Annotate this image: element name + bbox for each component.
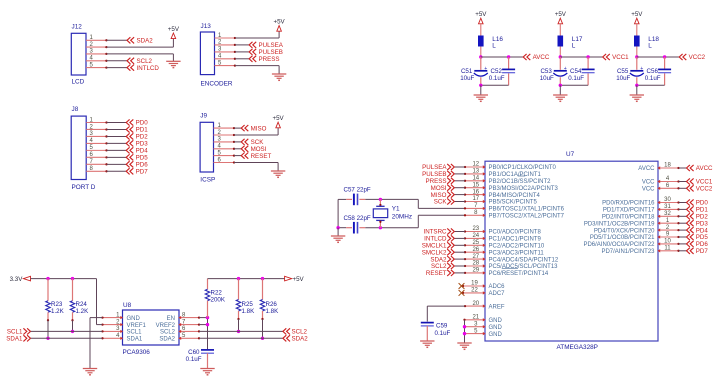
junction R25 top (237, 277, 240, 280)
wire U7-PD4 (679, 229, 687, 231)
capacitor C55 leads (636, 57, 638, 85)
svg-text:GND: GND (489, 325, 503, 331)
J9 pin 5 stub (214, 150, 236, 156)
svg-text:PD3/INT1/OC2B/PCINT19: PD3/INT1/OC2B/PCINT19 (584, 221, 655, 227)
ground (U7) (457, 343, 471, 349)
U7 pin 15 (PB3) (464, 182, 559, 192)
resistor R22 (205, 279, 209, 318)
J9 pin 3 stub (214, 137, 236, 143)
label Y1 (392, 206, 412, 221)
svg-text:PC4/ADC4/SDA/PCINT12: PC4/ADC4/SDA/PCINT12 (489, 257, 559, 263)
svg-text:1.8K: 1.8K (266, 308, 280, 315)
net flag PD3 (U7 right) (687, 220, 709, 227)
svg-text:10uF: 10uF (540, 75, 554, 82)
U8 pin 1 (GND) (101, 312, 140, 322)
wire J13.3-PULSEB (235, 51, 249, 53)
wire U7-VCC1 (679, 181, 687, 183)
svg-text:C57 22pF: C57 22pF (344, 187, 371, 194)
svg-text:13: 13 (472, 169, 479, 175)
capacitor C52 (502, 69, 515, 72)
wire EN (199, 317, 208, 319)
net flag SCL2 (U7 left) (431, 263, 454, 270)
inductor L18 (634, 36, 659, 50)
wire xtal left vert (337, 199, 339, 227)
net flag MOSI (U7) (431, 185, 455, 192)
svg-text:0.1uF: 0.1uF (186, 356, 202, 363)
wire J9.6-GND (234, 163, 278, 172)
net flag SDA2 (U7 left) (430, 256, 454, 263)
net flag SMCLK2 (U7 left) (422, 249, 455, 256)
wire U8 GND (90, 318, 103, 369)
J13 pin 3 stub (215, 47, 237, 53)
U7 pin 16 (PB4) (464, 189, 541, 199)
wire U7-PD2 (679, 215, 687, 217)
wire node-AVCC (481, 56, 523, 58)
U7 pin 20 (AREF) (464, 301, 505, 311)
svg-text:20MHz: 20MHz (392, 214, 412, 221)
junction R25-SCL2 (237, 330, 240, 333)
label ICSP (200, 177, 215, 184)
junction node VCC1 a (559, 55, 562, 58)
svg-text:PD0: PD0 (136, 120, 149, 127)
svg-text:PB5/SCK/PCINT5: PB5/SCK/PCINT5 (489, 200, 538, 206)
label R25 (242, 301, 256, 315)
U7 pin 31 (PD1 right) (603, 204, 680, 214)
svg-text:PD4/T0/XCK/PCINT20: PD4/T0/XCK/PCINT20 (594, 228, 655, 234)
inductor L16 (478, 36, 503, 50)
wire AREF-C59 (427, 306, 465, 321)
wire SDA1 (31, 337, 103, 339)
svg-text:PD5: PD5 (136, 155, 149, 162)
U7 pin 32 (PD2 right) (602, 211, 680, 221)
ground (J13) (272, 74, 286, 80)
wire J9.5-RESET (234, 155, 241, 157)
junction R24 top (71, 277, 74, 280)
svg-text:PD7: PD7 (696, 248, 709, 255)
no-connect X (ADC6) (459, 283, 465, 289)
net flag SCL2 (J12) (127, 58, 153, 65)
label R26 (266, 301, 280, 315)
net flag PD5 (J8) (126, 154, 148, 161)
label ENCODER (201, 81, 233, 88)
net flag SMCLK1 (U7 left) (422, 242, 455, 249)
svg-text:10uF: 10uF (616, 75, 630, 82)
svg-text:+5V: +5V (555, 11, 567, 18)
svg-text:MISO: MISO (251, 125, 267, 132)
ground (L17) (553, 95, 567, 101)
wire J8.8-PD7 (107, 170, 127, 172)
label LCD (72, 79, 85, 86)
wire L18-node (636, 47, 638, 58)
svg-text:VREF2: VREF2 (156, 323, 176, 329)
label J9 (200, 113, 207, 120)
net flag PD4 (U7 right) (687, 227, 709, 234)
wire U7-PD7 (679, 250, 687, 252)
J12 pin 4 stub (86, 56, 108, 62)
net flag PD3 (J8) (126, 140, 148, 147)
svg-text:PB4/MISO/PCINT4: PB4/MISO/PCINT4 (489, 193, 541, 199)
junction C53 bottom (559, 84, 562, 87)
junction gnd pin3 (463, 325, 466, 328)
net flag MOSI (J9) (241, 146, 266, 153)
U7 pin 24 (PC1) (464, 233, 542, 243)
J8 pin 7 stub (86, 159, 107, 165)
label R22 (211, 289, 226, 303)
svg-text:+5V: +5V (475, 11, 487, 18)
label C52 (489, 68, 505, 82)
junction xtal bottom (379, 226, 382, 229)
wire R24-SCL1 (72, 320, 74, 331)
svg-text:+5V: +5V (293, 276, 305, 283)
label J8 (72, 106, 79, 113)
+5V symbol (L17) (555, 11, 567, 24)
net flag PD7 (U7 right) (687, 248, 709, 255)
capacitor C56 leads (664, 57, 666, 85)
connector J12 (71, 33, 86, 75)
net flag VCC1 (603, 54, 629, 61)
net flag RESET (J9) (241, 153, 271, 160)
wire U7-PD3 (679, 222, 687, 224)
svg-text:R23: R23 (51, 301, 63, 308)
svg-text:AVCC: AVCC (696, 165, 713, 172)
capacitor C54 leads (587, 57, 589, 85)
U7 pin 25 (PC2) (464, 240, 545, 250)
U7 pin 14 (PB2) (464, 176, 551, 186)
svg-text:J9: J9 (200, 113, 207, 120)
wire RESET-U7 PC (455, 272, 465, 274)
J13 pin 1 stub (215, 33, 237, 39)
wire J13.5-GND (235, 66, 279, 74)
J9 pin 2 stub (214, 130, 236, 136)
svg-text:ADC7: ADC7 (489, 291, 506, 297)
wire C54-gnd rail (560, 84, 588, 86)
U7 pin 19 (ADC6) (462, 281, 505, 291)
label U7 (566, 151, 575, 158)
resistor R26 (260, 279, 264, 321)
wire R23-SDA1 (47, 320, 49, 338)
svg-text:1.8K: 1.8K (242, 308, 256, 315)
label J13 (201, 23, 212, 30)
U7 pin 28 (PC5) (464, 261, 558, 271)
svg-text:VCC2: VCC2 (689, 54, 706, 61)
net flag +5V (U8) (285, 276, 305, 283)
wire node-VCC1 (560, 56, 602, 58)
J8 pin 6 stub (86, 152, 107, 158)
svg-text:SDA1: SDA1 (6, 336, 23, 343)
wire J9.3-SCK (234, 141, 241, 143)
wire MOSI-U7 (455, 187, 465, 189)
svg-text:30: 30 (664, 197, 671, 203)
ground (C60) (200, 369, 214, 375)
wire SCK-U7 (455, 201, 465, 203)
svg-text:25: 25 (472, 240, 479, 246)
net flag PD6 (J8) (126, 161, 148, 168)
wire C56-gnd rail (637, 84, 665, 86)
label C55 (616, 68, 630, 82)
net flag VCC2 (679, 54, 705, 61)
wire +5V rail (U8) (208, 278, 285, 280)
wire MISO-U7 (455, 194, 465, 196)
U7 pin 8 (PB7) (464, 210, 565, 220)
svg-text:18: 18 (664, 163, 671, 169)
J12 pin 3 stub (86, 49, 108, 55)
net flag SCL1 (7, 328, 31, 335)
net flag PD7 (J8) (126, 168, 148, 175)
svg-text:PB0/ICP1/CLKO/PCINT0: PB0/ICP1/CLKO/PCINT0 (489, 165, 557, 171)
capacitor C54 (582, 69, 595, 72)
net flag SDA2 (U8) (283, 335, 308, 342)
wire EN/VREF2 bus (207, 318, 209, 350)
capacitor C51 (474, 66, 488, 76)
wire J12.2-+5V (106, 39, 173, 47)
U7 pin 18 (AVCC right) (638, 163, 679, 173)
net flag PULSEA (U7) (422, 164, 454, 171)
net flag SCK (J9) (241, 139, 264, 146)
svg-text:Y1: Y1 (392, 206, 400, 213)
wire R26-SDA2 (262, 319, 264, 338)
junction R26 top (261, 277, 264, 280)
U7 pin 10 (PD6 right) (583, 239, 679, 249)
svg-text:+5V: +5V (168, 26, 180, 33)
svg-text:15: 15 (472, 182, 479, 188)
wire R25-SCL2 (238, 319, 240, 331)
no-connect X (ADC7) (459, 290, 465, 296)
net flag SDA1 (6, 335, 30, 342)
U8 pin 2 (VREF1) (101, 319, 146, 329)
wire L17-node (559, 47, 561, 58)
svg-text:28: 28 (472, 261, 479, 267)
J12 pin 2 stub (86, 42, 108, 48)
wire xtal gnd drop (337, 228, 339, 236)
svg-text:U7: U7 (566, 151, 575, 158)
junction gnd pin5 (463, 332, 466, 335)
svg-text:VCC: VCC (642, 187, 655, 193)
svg-text:PB6/TOSC1/XTAL1/PCINT6: PB6/TOSC1/XTAL1/PCINT6 (489, 207, 565, 213)
net flag RESET (U7 left) (426, 270, 454, 277)
wire J8.2-PD1 (107, 128, 127, 130)
svg-text:PB7/TOSC2/XTAL2/PCINT7: PB7/TOSC2/XTAL2/PCINT7 (489, 214, 565, 220)
wire U7-PD1 (679, 208, 687, 210)
svg-text:12: 12 (472, 162, 479, 168)
svg-text:10uF: 10uF (460, 75, 474, 82)
J12 pin 5 stub (86, 62, 108, 68)
wire SCL2 out (199, 330, 283, 332)
wire xtal bottom rail (338, 227, 418, 229)
J8 pin 4 stub (86, 138, 107, 144)
wire node-gnd (L16) (480, 85, 482, 95)
capacitor C60 (201, 350, 214, 369)
crystal Y1 (373, 199, 387, 227)
net flag PULSEA (249, 42, 284, 49)
label R24 (76, 301, 90, 315)
svg-text:23: 23 (472, 226, 479, 232)
wire SCL1 (31, 330, 103, 332)
ground (C59) (420, 341, 434, 347)
label C59 (435, 323, 451, 338)
IC U8 body (123, 310, 180, 345)
capacitor C52 leads (508, 57, 510, 85)
wire J8.1-PD0 (107, 122, 127, 124)
svg-text:32: 32 (664, 211, 671, 217)
junction EN (206, 316, 209, 319)
J8 pin 2 stub (86, 124, 107, 130)
wire SCL2-U7 PC (455, 265, 465, 267)
U7 pin 7 (PB6) (464, 203, 565, 213)
junction xtal-left-bottom (336, 226, 339, 229)
svg-text:22: 22 (471, 288, 478, 294)
capacitor C56 (658, 69, 671, 72)
svg-text:INTLCD: INTLCD (137, 65, 160, 72)
net flag PULSEB (U7) (422, 171, 454, 178)
svg-text:J13: J13 (201, 23, 212, 30)
svg-text:PD6: PD6 (136, 162, 149, 169)
junction VREF2 (206, 323, 209, 326)
junction C51 bottom (479, 84, 482, 87)
svg-text:PD7/AIN1/PCINT23: PD7/AIN1/PCINT23 (601, 249, 655, 255)
U7 pin 1 (PD3 right) (584, 218, 680, 228)
net flag PD2 (J8) (126, 133, 148, 140)
label PORT D (72, 184, 96, 191)
net flag AVCC (U7 right) (687, 165, 714, 172)
wire node-gnd (L17) (559, 85, 561, 95)
U7 pin 23 (PC0) (464, 226, 542, 236)
svg-text:PD3: PD3 (136, 141, 149, 148)
wire SMCLK1-U7 PC (455, 244, 465, 246)
wire J9.2-+5V (234, 128, 278, 135)
svg-text:LCD: LCD (72, 79, 85, 86)
wire J12.1-SDA2 (106, 39, 127, 41)
wire PULSEA-U7 (455, 166, 465, 168)
svg-text:PORT D: PORT D (72, 184, 96, 191)
svg-text:0.1uF: 0.1uF (645, 75, 661, 82)
svg-text:L: L (648, 43, 652, 50)
net flag PD4 (J8) (126, 147, 148, 154)
svg-text:PD5/T1/OC0B/PCINT21: PD5/T1/OC0B/PCINT21 (590, 235, 655, 241)
net flag PD0 (U7 right) (687, 199, 709, 206)
wire PRESS-U7 (455, 180, 465, 182)
J9 pin 1 stub (214, 123, 236, 129)
U8 pin 3 (SCL1) (101, 326, 142, 336)
net flag SCK (U7) (434, 198, 455, 205)
wire xtal-XTAL1 (418, 199, 465, 208)
label C53 (540, 68, 554, 82)
wire J12.3-GND (106, 54, 173, 61)
wire INTSRC-U7 PC (455, 231, 465, 233)
U7 pin 27 (PC4) (464, 254, 559, 264)
svg-text:R26: R26 (266, 301, 278, 308)
ground (L16) (474, 95, 488, 101)
+5V symbol (L18) (631, 11, 643, 24)
svg-text:SDA2: SDA2 (292, 336, 309, 343)
label C51 (460, 68, 474, 82)
svg-text:PB1/OC1A/PCINT1: PB1/OC1A/PCINT1 (489, 172, 542, 178)
IC U7 body (485, 161, 658, 341)
resistor R25 (236, 279, 240, 321)
svg-text:SDA2: SDA2 (137, 38, 154, 45)
svg-text:+: + (564, 66, 567, 72)
wire J8.5-PD4 (107, 149, 127, 151)
+5V symbol (L16) (475, 11, 487, 24)
U7 pin 4 (VCC right) (642, 176, 680, 186)
svg-text:PC1/ADC1/PCINT9: PC1/ADC1/PCINT9 (489, 237, 542, 243)
J8 pin 8 stub (86, 166, 107, 172)
wire INTLCD-U7 PC (455, 237, 465, 239)
wire xtal-XTAL2 (418, 215, 465, 227)
net flag PD5 (U7 right) (687, 234, 709, 241)
svg-text:AVCC: AVCC (533, 54, 550, 61)
inductor L17 (558, 36, 583, 50)
svg-text:SDA2: SDA2 (159, 337, 175, 343)
U7 pin 22 (ADC7) (462, 288, 505, 298)
U7 pin 26 (PC3) (464, 247, 545, 257)
net flag 3.3V (10, 276, 31, 283)
wire +5V-L17 (559, 24, 561, 36)
svg-text:+: + (640, 66, 643, 72)
svg-text:VREF1: VREF1 (127, 323, 147, 329)
svg-text:3.3V: 3.3V (10, 276, 24, 283)
wire J12.4-SCL2 (106, 60, 127, 62)
wire SDA2 out (199, 337, 283, 339)
ground (J9) (271, 171, 285, 177)
wire SMCLK2-U7 PC (455, 251, 465, 253)
U7 pin 5 (GND) (463, 328, 502, 338)
svg-text:VCC: VCC (642, 180, 655, 186)
svg-text:1.2K: 1.2K (51, 308, 65, 315)
svg-text:PD2: PD2 (136, 134, 149, 141)
capacitor C55 (630, 66, 644, 76)
wire J8.3-PD2 (107, 135, 127, 137)
net flag PD1 (U7 right) (687, 206, 709, 213)
net flag PULSEB (249, 49, 283, 56)
wire J13.1-+5V (235, 31, 279, 38)
svg-text:GND: GND (127, 316, 141, 322)
svg-text:14: 14 (472, 176, 479, 182)
junction node AVCC b (507, 55, 510, 58)
svg-text:ADC6: ADC6 (489, 284, 506, 290)
wire J9.1-MISO (234, 127, 241, 129)
svg-text:PRESS: PRESS (259, 56, 280, 63)
U7 pin 13 (PB1) (464, 169, 542, 179)
U7 pin 6 (VCC right) (642, 183, 680, 193)
capacitor C59 (421, 323, 434, 341)
wire J13.4-PRESS (235, 58, 249, 60)
label J12 (72, 24, 83, 31)
svg-text:ICSP: ICSP (200, 177, 215, 184)
U7 pin 17 (PB5) (464, 196, 538, 206)
svg-text:C59: C59 (436, 323, 448, 330)
svg-text:R24: R24 (76, 301, 88, 308)
wire J8.7-PD6 (107, 163, 127, 165)
U7 pin 2 (PD4 right) (594, 225, 680, 235)
svg-text:1.2K: 1.2K (76, 308, 90, 315)
overline RESET (502, 268, 518, 270)
svg-text:+: + (484, 66, 487, 72)
svg-text:27: 27 (472, 254, 479, 260)
svg-text:+5V: +5V (273, 115, 285, 122)
svg-text:VCC2: VCC2 (696, 186, 713, 193)
svg-text:0.1uF: 0.1uF (489, 75, 505, 82)
capacitor C53 (553, 66, 567, 76)
net flag SDA2 (127, 37, 153, 44)
U8 pin 4 (SDA1) (101, 333, 142, 343)
net flag PD0 (J8) (126, 119, 148, 126)
svg-text:L: L (492, 43, 496, 50)
wire J13.2-PULSEA (235, 44, 249, 46)
wire U7 gnd bus (464, 320, 466, 343)
svg-text:EN: EN (167, 316, 175, 322)
wire 3.3V rail (31, 278, 97, 280)
svg-text:J8: J8 (72, 106, 79, 113)
